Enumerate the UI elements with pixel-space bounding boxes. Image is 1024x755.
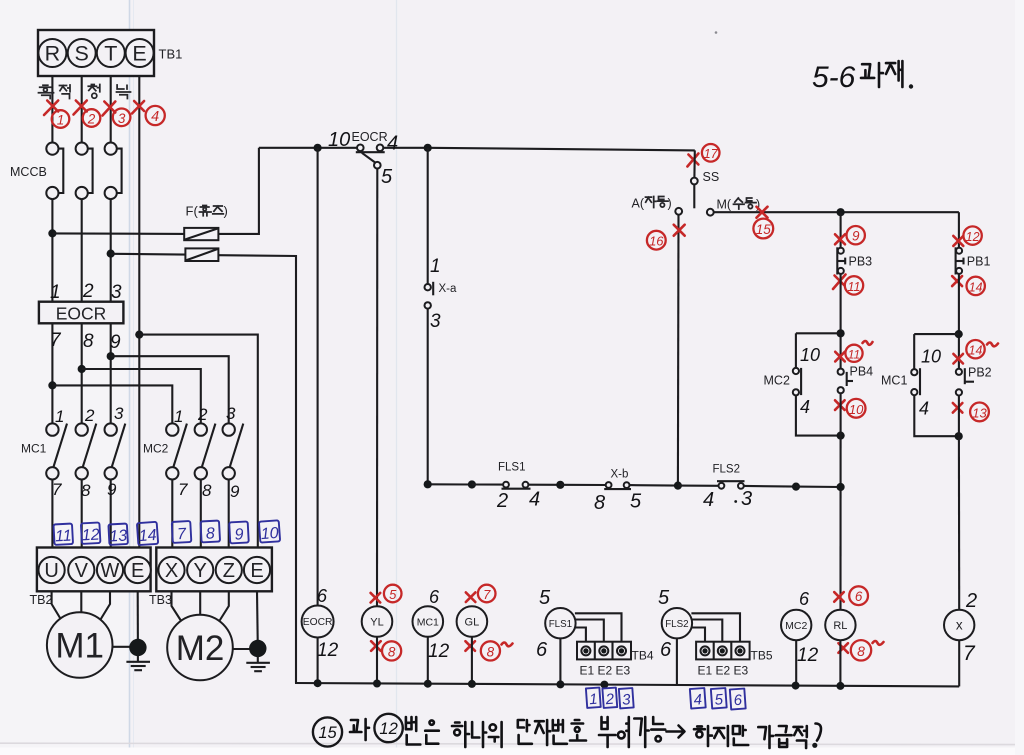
scan speck top right bbox=[715, 31, 718, 34]
terminal block TB3 bbox=[156, 548, 272, 592]
wires FLS1 coil to TB4 terminals bbox=[575, 613, 622, 641]
svg-text:12: 12 bbox=[81, 527, 100, 545]
svg-text:14: 14 bbox=[969, 344, 983, 358]
svg-text:M(: M( bbox=[717, 198, 732, 212]
svg-text:6: 6 bbox=[799, 589, 810, 609]
red X above RL bbox=[834, 592, 844, 602]
terminal number 14 (blue boxed) bbox=[137, 522, 158, 545]
svg-text:RL: RL bbox=[833, 620, 847, 632]
svg-text:E1 E2 E3: E1 E2 E3 bbox=[580, 664, 631, 678]
wire E branch to TB3-E column bbox=[139, 335, 257, 548]
wire GL coil to bus bbox=[471, 637, 473, 684]
wire MC1 aux branch bottom bbox=[914, 395, 958, 436]
svg-text:): ) bbox=[668, 197, 672, 211]
wire MC1 aux branch down bbox=[913, 334, 915, 369]
terminal number 4 (blue boxed, TB5) bbox=[690, 688, 706, 709]
red X mark on R lead bbox=[44, 101, 58, 116]
svg-text:F(: F( bbox=[186, 204, 199, 219]
svg-text:13: 13 bbox=[109, 528, 128, 546]
svg-text:MC1: MC1 bbox=[881, 374, 907, 388]
handwritten korean eun bbox=[425, 731, 439, 744]
wire rail corner down to SS bbox=[693, 150, 695, 177]
wire M1 to earth node bbox=[113, 646, 138, 648]
contactor MC2 pole 3 bbox=[223, 423, 244, 479]
red squiggle near 8c bbox=[873, 641, 884, 645]
node rung at A / FLS2 coil column bbox=[674, 482, 682, 490]
handwritten korean ha2 bbox=[694, 726, 712, 746]
svg-text:3: 3 bbox=[226, 404, 236, 423]
svg-text:9: 9 bbox=[230, 482, 240, 501]
handwritten korean ha bbox=[452, 722, 469, 747]
terminal number 6 (blue boxed, TB5) bbox=[730, 689, 746, 710]
wire S phase TB1 to MCCB bbox=[81, 76, 83, 143]
svg-text:7: 7 bbox=[50, 330, 62, 351]
node T branch to MC2 bbox=[107, 352, 115, 360]
wire A column down to auto rung bbox=[677, 215, 680, 486]
wire TB3 Z to motor M2 bbox=[219, 591, 229, 621]
relay block EOCR bbox=[39, 302, 124, 324]
svg-text:6: 6 bbox=[855, 589, 863, 604]
handwritten korean jeok2 bbox=[794, 726, 807, 748]
terminal block TB1 bbox=[38, 30, 154, 76]
red circled 2 bbox=[83, 109, 101, 127]
handwritten korean yeo bbox=[626, 717, 629, 747]
svg-text:7: 7 bbox=[963, 642, 976, 665]
wire TB2 W to motor M1 bbox=[101, 591, 111, 619]
wire fuse F2 to neutral bus riser bbox=[218, 255, 296, 683]
contact M(manual) bbox=[707, 209, 714, 216]
contact MC1 aux (NO 10-4) bbox=[911, 368, 920, 395]
wire PB1 to combo MC1/PB2 bbox=[958, 274, 960, 369]
svg-text:17: 17 bbox=[704, 147, 719, 161]
terminal number 13 (blue boxed) bbox=[108, 524, 128, 546]
terminal number 3 (blue boxed, TB4) bbox=[619, 688, 634, 709]
svg-text:MC1: MC1 bbox=[21, 442, 47, 456]
red X below RL bbox=[838, 643, 848, 653]
svg-text:EOCR: EOCR bbox=[56, 304, 107, 324]
handwritten korean geup bbox=[776, 726, 792, 747]
svg-text:MC1: MC1 bbox=[417, 617, 439, 629]
handwritten korean dan bbox=[518, 720, 532, 744]
svg-text:EOCR: EOCR bbox=[352, 130, 388, 144]
svg-text:1: 1 bbox=[55, 407, 64, 426]
wire M2 to earth node bbox=[233, 648, 258, 650]
svg-text:6: 6 bbox=[536, 639, 548, 661]
terminal block TB2 bbox=[37, 548, 151, 592]
svg-text:TB4: TB4 bbox=[632, 649, 654, 663]
svg-text:Z: Z bbox=[223, 560, 235, 582]
earth node M2 (filled) bbox=[249, 640, 266, 657]
svg-text:): ) bbox=[224, 204, 228, 219]
node bus FLS1 bbox=[556, 680, 564, 688]
scan artifact: bottom scanner edge bbox=[0, 748, 1024, 755]
red circled 4 bbox=[146, 106, 165, 125]
svg-text:1: 1 bbox=[174, 407, 183, 426]
red X mark on E lead bbox=[132, 101, 144, 114]
svg-text:13: 13 bbox=[972, 405, 987, 420]
svg-text:4: 4 bbox=[387, 133, 398, 155]
scan artifact: faint blue notebook line left bbox=[129, 0, 131, 755]
red X mark 17 on rail bbox=[687, 154, 698, 167]
wire YL column from EOCR NC throw bbox=[376, 168, 378, 606]
svg-text:9: 9 bbox=[110, 332, 121, 353]
wire MC2-2 to TB3 Y bbox=[200, 480, 202, 548]
red circled 8 (below YL) bbox=[382, 641, 401, 660]
wire rung FLS1col to X-b bbox=[560, 484, 605, 486]
svg-text:2: 2 bbox=[965, 590, 977, 612]
svg-text:5-6: 5-6 bbox=[812, 61, 856, 94]
svg-text:8: 8 bbox=[205, 525, 215, 542]
wire EOCR coil to bus bbox=[317, 638, 319, 684]
contactor MC1 pole 1 bbox=[46, 423, 67, 479]
coil RL bbox=[825, 610, 855, 640]
svg-text:12: 12 bbox=[797, 645, 819, 666]
wire PB4 lower to combo bottom bbox=[840, 393, 842, 435]
wire MC1 coil to bus bbox=[427, 637, 429, 684]
svg-text:EOCR: EOCR bbox=[303, 617, 333, 628]
wire EOCR coil column bbox=[317, 148, 319, 606]
coil FLS1 bbox=[545, 608, 575, 638]
node rail to X-a bbox=[424, 144, 432, 152]
svg-text:TB3: TB3 bbox=[149, 593, 172, 607]
red circled 5 bbox=[384, 585, 402, 603]
wire YL coil to bus bbox=[376, 637, 378, 684]
terminal number 2 (blue boxed, TB4) bbox=[602, 688, 617, 709]
ground symbol M2 bbox=[246, 657, 270, 671]
node bus MC1 bbox=[424, 680, 432, 688]
node bus TB4-E2 bbox=[600, 681, 608, 689]
wire TB2 E down to M1 earth node bbox=[137, 591, 139, 647]
red circled 3 bbox=[113, 109, 131, 127]
handwritten korean neung bbox=[651, 717, 665, 730]
handwritten korean ja2 bbox=[535, 720, 550, 745]
svg-text:4: 4 bbox=[800, 397, 810, 417]
svg-text:8: 8 bbox=[202, 481, 212, 500]
bottom note exclamation bbox=[816, 724, 821, 741]
contactor MC2 pole 2 bbox=[195, 423, 216, 479]
svg-text:7: 7 bbox=[178, 480, 188, 499]
terminal number 5 (blue boxed, TB5) bbox=[711, 688, 727, 709]
wire X-a to rung / MC1 coil bbox=[427, 309, 429, 485]
wire rung Acol to FLS2 contact bbox=[678, 485, 719, 487]
svg-text:3: 3 bbox=[430, 311, 441, 332]
wire R EOCR to MC1 contact 1 bbox=[51, 323, 53, 423]
red circled 13 (below PB2) bbox=[970, 403, 989, 422]
fuse F2 bbox=[185, 248, 218, 261]
wire control top rail (left of EOCR contact) bbox=[259, 147, 357, 149]
svg-text:9: 9 bbox=[852, 229, 860, 244]
red squiggle near 14b bbox=[987, 343, 998, 347]
svg-text:16: 16 bbox=[649, 234, 664, 249]
wire control top rail (right of EOCR contact) bbox=[383, 148, 695, 151]
wire R phase TB1 to MCCB bbox=[51, 76, 53, 143]
svg-text:4: 4 bbox=[703, 489, 714, 511]
red circled 11 (below PB3) bbox=[845, 276, 863, 294]
svg-text:E: E bbox=[250, 560, 263, 582]
wire X coil to bus corner bbox=[958, 640, 960, 686]
svg-text:S: S bbox=[75, 42, 89, 66]
terminal number 9 (blue boxed) bbox=[229, 521, 249, 543]
svg-text:1: 1 bbox=[50, 282, 61, 303]
wire T MCCB to EOCR bbox=[110, 199, 112, 302]
pushbutton PB3 (NC) bbox=[837, 247, 845, 274]
wire M line corner down to PB1 bbox=[958, 212, 960, 248]
wire MC1-1 to TB2 U bbox=[51, 480, 53, 548]
node rung at FLS1 coil column bbox=[556, 481, 564, 489]
wire rung segment MC1col-GLcol bbox=[428, 483, 472, 485]
red circled 1 bbox=[52, 110, 70, 128]
svg-text:TB5: TB5 bbox=[751, 649, 773, 663]
coil GL bbox=[457, 606, 488, 637]
node R branch to MC2 bbox=[48, 381, 56, 389]
svg-text:FLS1: FLS1 bbox=[498, 462, 526, 474]
handwritten korean na bbox=[472, 722, 486, 747]
wire S EOCR to MC1 contact 2 bbox=[81, 323, 83, 423]
contactor MC1 pole 2 bbox=[76, 423, 97, 479]
coil YL bbox=[362, 606, 393, 637]
red X above PB2 bbox=[953, 354, 963, 364]
svg-text:PB3: PB3 bbox=[849, 255, 873, 269]
bottom note circled 15 bbox=[313, 717, 342, 746]
wire T branch to MC2 contact 3 bbox=[111, 356, 229, 423]
svg-text:PB1: PB1 bbox=[967, 255, 991, 269]
wire TB3 Y to motor M2 bbox=[199, 591, 201, 615]
svg-text:SS: SS bbox=[703, 170, 720, 184]
node combo MC1/PB2 top bbox=[955, 330, 963, 338]
node combo MC2/PB4 bottom bbox=[837, 432, 845, 440]
red circled 15 bbox=[753, 219, 773, 239]
wire R MCCB to EOCR bbox=[51, 199, 53, 302]
node rung at MC1 column bbox=[424, 480, 432, 488]
wire R branch to MC2 contact 1 bbox=[52, 385, 172, 423]
svg-text:Y: Y bbox=[194, 560, 207, 582]
red circled 8b (below GL) bbox=[481, 641, 500, 660]
earth node M1 (filled) bbox=[129, 639, 146, 656]
ground symbol M1 bbox=[126, 656, 150, 670]
node bus RL bbox=[836, 682, 844, 690]
svg-text:2: 2 bbox=[197, 405, 208, 424]
wire T phase TB1 to MCCB bbox=[110, 76, 112, 143]
red circled 16 bbox=[647, 231, 666, 250]
svg-text:8: 8 bbox=[388, 644, 396, 659]
handwritten korean gwa-bottom bbox=[350, 719, 369, 740]
wire combo bottom down to X coil bbox=[958, 436, 960, 610]
svg-text:MC2: MC2 bbox=[764, 374, 790, 388]
svg-text:11: 11 bbox=[848, 280, 861, 294]
svg-text:8: 8 bbox=[594, 492, 605, 514]
wire TB2 U to motor M1 bbox=[52, 591, 61, 619]
pushbutton PB2 (NO) bbox=[956, 368, 974, 395]
node rung at MC2 coil column bbox=[792, 483, 800, 491]
svg-text:TB2: TB2 bbox=[30, 593, 53, 607]
wire PB3 to parallel combo bbox=[840, 274, 842, 369]
wire MC2-3 to TB3 Z bbox=[228, 480, 230, 548]
svg-text:5: 5 bbox=[539, 587, 551, 609]
red X above GL bbox=[466, 592, 476, 602]
red squiggle near 11b bbox=[863, 341, 873, 345]
svg-text:2: 2 bbox=[82, 281, 94, 302]
svg-text:TB1: TB1 bbox=[159, 47, 183, 62]
red circled 17 bbox=[702, 144, 720, 162]
svg-text:9: 9 bbox=[234, 526, 244, 543]
contact X-b (NO) on rung bbox=[604, 482, 631, 489]
terminal block TB4 bbox=[577, 642, 631, 660]
red X below PB1 bbox=[952, 276, 962, 286]
wire rung FLS2 to MC2 coil column bbox=[744, 485, 796, 488]
svg-text:10: 10 bbox=[800, 345, 820, 365]
wire neutral bus bbox=[295, 683, 959, 686]
svg-text:10: 10 bbox=[849, 402, 864, 417]
red X below YL bbox=[371, 641, 381, 651]
bottom note circled 12 bbox=[374, 714, 402, 742]
svg-text:12: 12 bbox=[379, 720, 397, 738]
red X above YL bbox=[371, 593, 381, 603]
wire TB3 E down to M2 earth node bbox=[256, 591, 259, 647]
contact FLS1 (NO) on rung bbox=[502, 482, 531, 489]
svg-text:5: 5 bbox=[630, 491, 642, 513]
scan artifact: faint blue line center bbox=[396, 0, 398, 755]
svg-text:12: 12 bbox=[966, 230, 980, 244]
wire E earth TB1 down to TB2 bbox=[138, 76, 140, 548]
handwritten korean bu bbox=[599, 717, 616, 747]
wire combo bottom to RL coil via rung node bbox=[839, 436, 841, 610]
red X below PB2 bbox=[953, 403, 963, 413]
svg-text:8: 8 bbox=[83, 331, 94, 352]
wire MC2 coil to bus bbox=[795, 640, 797, 685]
svg-text:4: 4 bbox=[919, 399, 929, 419]
wire fuse F1 to control rail riser bbox=[218, 148, 259, 234]
coil FLS2 bbox=[662, 608, 692, 638]
handwritten korean man bbox=[733, 726, 748, 745]
svg-text:6: 6 bbox=[660, 639, 672, 661]
node M line to PB3 bbox=[837, 208, 845, 216]
red X mark 15 on M line bbox=[757, 207, 768, 218]
wire rung MC2col to RL column bbox=[796, 486, 841, 488]
wire MC1-2 to TB2 V bbox=[81, 480, 83, 548]
wire T EOCR to MC1 contact 3 bbox=[110, 323, 112, 423]
svg-text:3: 3 bbox=[118, 111, 126, 126]
svg-text:7: 7 bbox=[483, 587, 491, 602]
red X mark on S lead bbox=[74, 101, 87, 115]
contact FLS2 (NC) on rung bbox=[717, 481, 745, 489]
red circled 10 (below PB4) bbox=[847, 399, 866, 418]
wire M(manual) feeder line bbox=[714, 211, 959, 213]
ink dot between pins bbox=[734, 500, 737, 503]
node rail to EOCR coil bbox=[314, 144, 322, 152]
terminal block TB5 bbox=[696, 642, 750, 660]
fuse F1 bbox=[184, 228, 218, 240]
svg-text:R: R bbox=[45, 42, 61, 66]
svg-text:FLS2: FLS2 bbox=[713, 464, 741, 476]
svg-text:X: X bbox=[165, 560, 178, 582]
svg-text:10: 10 bbox=[328, 129, 350, 151]
red circled 8c (below RL) bbox=[851, 640, 871, 660]
pushbutton PB4 (NO) bbox=[838, 369, 853, 394]
node bus YL bbox=[373, 680, 381, 688]
svg-text:11: 11 bbox=[55, 528, 72, 546]
svg-text:5: 5 bbox=[658, 587, 670, 609]
svg-text:9: 9 bbox=[107, 480, 117, 499]
svg-text:2: 2 bbox=[84, 406, 95, 425]
terminal number 1 (blue boxed, TB4) bbox=[586, 688, 601, 709]
svg-text:PB4: PB4 bbox=[850, 365, 874, 379]
wire TB3 X to motor M2 bbox=[172, 591, 182, 621]
svg-text:10: 10 bbox=[260, 525, 279, 543]
wire S MCCB to EOCR bbox=[81, 199, 83, 302]
red circled 14b above PB2 bbox=[966, 340, 984, 358]
wire MC2 aux branch bottom bbox=[796, 395, 841, 435]
red circled 7 bbox=[478, 585, 496, 603]
coil MC1 bbox=[413, 606, 444, 637]
red X mark above PB3 bbox=[835, 234, 845, 244]
contact EOCR changeover (10-4/5) bbox=[356, 145, 385, 169]
svg-text:4: 4 bbox=[151, 109, 159, 125]
red X below PB4 bbox=[835, 400, 845, 410]
scan artifact: right edge lighter bbox=[1015, 0, 1024, 755]
terminal number 12 (blue boxed) bbox=[81, 522, 101, 544]
breaker MCCB (3 poles) bbox=[46, 143, 121, 200]
svg-text:3: 3 bbox=[114, 404, 124, 423]
contact MC2 aux (NO 10-4) bbox=[793, 368, 801, 396]
contactor MC2 pole 1 bbox=[166, 423, 187, 479]
wire RL coil to bus bbox=[839, 640, 841, 686]
svg-text:U: U bbox=[44, 560, 58, 582]
svg-text:YL: YL bbox=[370, 617, 383, 629]
svg-text:6: 6 bbox=[429, 587, 440, 607]
red X mark 16 on A column bbox=[674, 225, 685, 236]
svg-text:2: 2 bbox=[604, 691, 615, 709]
svg-text:FLS2: FLS2 bbox=[665, 619, 688, 630]
svg-text:A(: A( bbox=[632, 197, 645, 211]
red X mark on T lead bbox=[103, 102, 116, 116]
svg-text:GL: GL bbox=[465, 617, 480, 629]
node rung at RL column bbox=[837, 483, 845, 491]
svg-text:14: 14 bbox=[969, 280, 983, 294]
red circled 12 bbox=[963, 226, 981, 244]
svg-text:W: W bbox=[101, 560, 120, 582]
svg-text:PB2: PB2 bbox=[968, 366, 992, 380]
svg-text:10: 10 bbox=[921, 347, 941, 367]
handwritten korean beon bbox=[406, 717, 420, 745]
svg-text:4: 4 bbox=[529, 489, 540, 511]
wire M line down to PB3 bbox=[840, 212, 842, 248]
handwritten korean ho bbox=[570, 720, 586, 741]
svg-text:11: 11 bbox=[848, 348, 860, 362]
svg-text:E: E bbox=[132, 42, 146, 66]
red X above PB4 bbox=[835, 352, 845, 362]
svg-text:M2: M2 bbox=[176, 629, 225, 668]
selector switch SS pole bbox=[691, 178, 698, 209]
svg-text:5: 5 bbox=[381, 166, 393, 188]
node combo MC2/PB4 top bbox=[837, 329, 845, 337]
wire MC1-3 to TB2 W bbox=[110, 480, 112, 548]
svg-text:4: 4 bbox=[693, 691, 703, 709]
motor M1 bbox=[47, 612, 113, 678]
red X above PB1 bbox=[953, 236, 963, 246]
handwritten korean ga2 bbox=[758, 726, 773, 748]
handwritten korean je-title bbox=[886, 61, 902, 87]
node E branch to TB3 bbox=[135, 331, 143, 339]
svg-text:14: 14 bbox=[138, 527, 157, 545]
svg-text:8: 8 bbox=[81, 481, 91, 500]
coil EOCR bbox=[302, 606, 334, 638]
node fuse1 tap on R bbox=[48, 229, 56, 237]
svg-text:8: 8 bbox=[857, 643, 865, 659]
svg-text:6: 6 bbox=[317, 586, 328, 606]
coil X bbox=[944, 610, 974, 640]
svg-text:1: 1 bbox=[589, 691, 599, 709]
pushbutton PB1 (NC) bbox=[956, 247, 964, 274]
